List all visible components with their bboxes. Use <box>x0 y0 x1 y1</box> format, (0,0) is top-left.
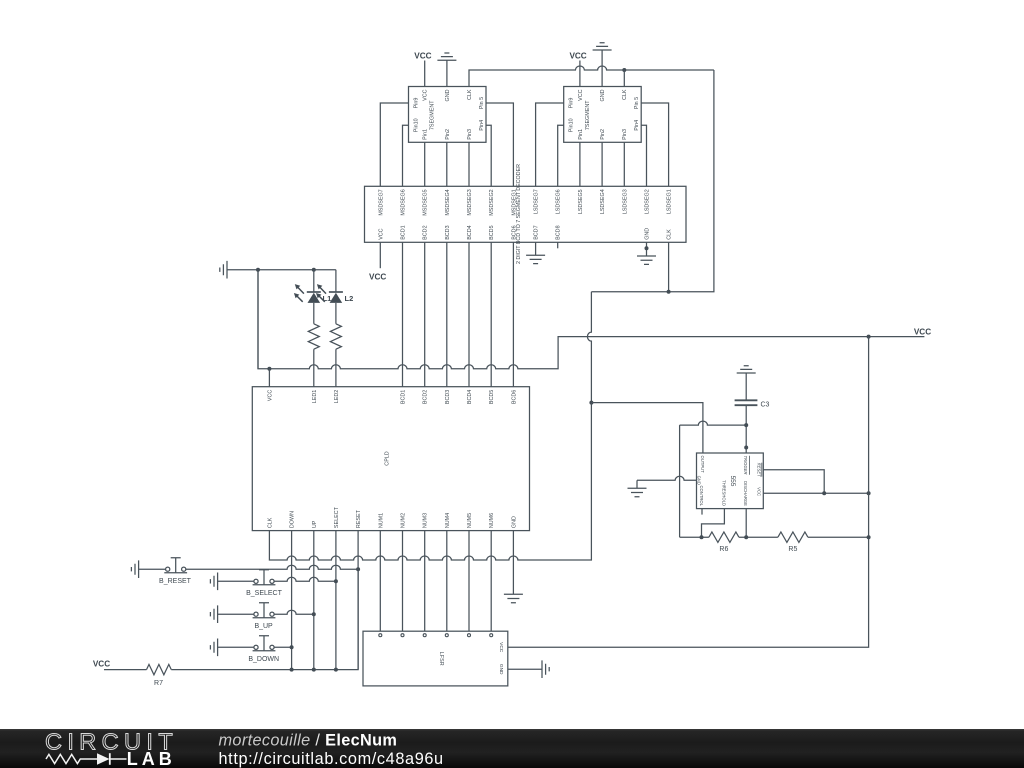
CPLD U4 <box>252 387 529 531</box>
junction dot C3 <box>744 423 748 427</box>
svg-text:B_DOWN: B_DOWN <box>248 656 279 663</box>
svg-text:BCD5: BCD5 <box>489 390 495 404</box>
wire U2 Pin3 to MSDSEG3 <box>468 142 470 186</box>
svg-text:GND: GND <box>445 89 451 101</box>
wire U3 Pin5 to LSDSEG1 <box>641 103 668 186</box>
wire R7 rail to RESET vertical <box>171 569 358 669</box>
svg-text:Pin3: Pin3 <box>467 129 473 140</box>
junction dot decoder GND <box>645 246 649 250</box>
svg-text:MSDSEG6: MSDSEG6 <box>401 189 407 215</box>
wire CPLD NUM2 to LFSR <box>402 531 404 632</box>
wire U3 Pin3 to LSDSEG3 <box>623 142 625 186</box>
wire U3 Pin2 to LSDSEG4 <box>601 142 603 186</box>
svg-text:Pin10: Pin10 <box>569 118 575 132</box>
VCC flag (decoder) <box>369 242 386 281</box>
wire rail down to VCC line <box>257 270 259 369</box>
junction dot B_UP <box>312 612 316 616</box>
svg-text:DISCHARGE: DISCHARGE <box>743 481 748 506</box>
svg-text:VCC: VCC <box>267 390 273 401</box>
svg-text:CLK: CLK <box>622 89 628 100</box>
svg-text:CLK: CLK <box>667 229 673 240</box>
svg-text:VCC: VCC <box>569 52 586 61</box>
wire CPLD DOWN vertical <box>291 531 293 670</box>
7-segment display U2 <box>409 87 487 143</box>
wire 555 DISCHARGE <box>745 509 747 538</box>
svg-text:Pin 5: Pin 5 <box>634 97 640 109</box>
wire CPLD NUM4 to LFSR <box>446 531 448 632</box>
svg-text:MSDSEG2: MSDSEG2 <box>489 189 495 215</box>
svg-text:LSDSEG2: LSDSEG2 <box>645 189 651 214</box>
svg-text:Pin2: Pin2 <box>445 129 451 140</box>
svg-text:BCD8: BCD8 <box>556 225 562 239</box>
resistor R1 (LED L1) <box>308 324 319 387</box>
svg-text:RESET: RESET <box>756 463 761 477</box>
wire U3 Pin9 to LSDSEG7 <box>536 103 564 186</box>
junction dot B_RESET/RESET <box>356 567 360 571</box>
wire 555 GND with hop <box>637 476 697 480</box>
ground (CPLD GND) <box>504 531 523 603</box>
wire U3 Pin4 to LSDSEG2 <box>641 125 646 186</box>
svg-text:NUM4: NUM4 <box>445 513 451 528</box>
svg-text:OUTPUT: OUTPUT <box>700 456 705 474</box>
wire U3 CLK stub <box>623 70 625 87</box>
wire CPLD NUM5 to LFSR <box>468 531 470 632</box>
junction dot rail/UP <box>312 668 316 672</box>
svg-text:VCC: VCC <box>756 487 761 496</box>
svg-text:VCC: VCC <box>93 660 110 669</box>
wire BCD1 decoder to CPLD <box>402 242 404 386</box>
svg-text:VCC: VCC <box>914 327 931 336</box>
svg-text:Pin 5: Pin 5 <box>479 97 485 109</box>
svg-text:Pin4: Pin4 <box>634 120 640 131</box>
junction dot THRESHOLD/R6 <box>700 535 704 539</box>
wire LED rail <box>258 269 336 271</box>
svg-text:C3: C3 <box>761 402 770 409</box>
pushbutton B_SELECT <box>210 573 254 591</box>
ground (decoder GND) <box>637 242 656 264</box>
pushbutton B_DOWN <box>210 639 254 657</box>
svg-text:LSDSEG6: LSDSEG6 <box>556 189 562 214</box>
svg-text:BCD2: BCD2 <box>423 390 429 404</box>
wire CPLD NUM6 to LFSR <box>490 531 492 632</box>
wire BCD5 decoder to CPLD <box>490 242 492 386</box>
svg-text:NUM3: NUM3 <box>423 513 429 528</box>
555 timer U5 <box>697 453 764 509</box>
wire U3 Pin1 to LSDSEG5 <box>579 142 581 186</box>
svg-text:GND: GND <box>511 516 517 528</box>
wire VCC right rail down to LFSR <box>508 337 869 648</box>
svg-text:LSDSEG4: LSDSEG4 <box>600 189 606 214</box>
svg-text:Pin4: Pin4 <box>479 120 485 131</box>
svg-text:GND: GND <box>645 228 651 240</box>
svg-text:MSDSEG3: MSDSEG3 <box>467 189 473 215</box>
svg-text:LED1: LED1 <box>312 390 318 404</box>
svg-text:BCD1: BCD1 <box>401 390 407 404</box>
wire C3 to TRIGGER <box>745 405 747 453</box>
svg-text:LFSR: LFSR <box>438 652 444 666</box>
svg-text:L2: L2 <box>345 294 354 303</box>
svg-text:R6: R6 <box>719 546 728 553</box>
wire CPLD SELECT vertical <box>335 531 337 670</box>
svg-text:GND: GND <box>600 89 606 101</box>
2-digit BCD to 7-segment decoder U1 <box>365 164 687 264</box>
svg-text:BCD4: BCD4 <box>467 390 473 404</box>
wire R6/R5 rail <box>680 536 869 538</box>
svg-text:Pin1: Pin1 <box>578 129 584 140</box>
svg-text:7SEGMENT: 7SEGMENT <box>585 100 591 130</box>
VCC flag (display U3) <box>569 52 586 87</box>
svg-text:VCC: VCC <box>578 89 584 100</box>
svg-text:LSDSEG3: LSDSEG3 <box>622 189 628 214</box>
ground (C3 top) <box>737 366 756 401</box>
junction dot rail/SELECT <box>334 668 338 672</box>
junction dot rail/DOWN <box>290 668 294 672</box>
svg-text:GND: GND <box>498 664 504 675</box>
wire U2 Pin10 to MSDSEG6 <box>403 125 409 186</box>
svg-text:Pin9: Pin9 <box>569 98 575 109</box>
svg-text:VCC: VCC <box>378 228 384 239</box>
junction dot LED1 top <box>312 268 316 272</box>
LFSR U6 <box>363 631 508 686</box>
wire 555 RESET to VCC rail <box>763 470 824 494</box>
wire CLK net (displays to 555 output / decoder) <box>469 66 714 87</box>
wire CLK down to CPLD CLK <box>269 403 591 560</box>
svg-text:BCD3: BCD3 <box>445 390 451 404</box>
svg-text:BCD2: BCD2 <box>423 225 429 239</box>
svg-text:VCC: VCC <box>369 272 386 281</box>
svg-text:LSDSEG1: LSDSEG1 <box>667 189 673 214</box>
junction dot TRIGGER <box>744 446 748 450</box>
wire U2 Pin9 to MSDSEG7 <box>380 103 408 186</box>
svg-text:THRESHOLD: THRESHOLD <box>721 480 726 506</box>
junction dot B_SELECT <box>334 579 338 583</box>
wire BCD4 decoder to CPLD <box>468 242 470 386</box>
junction dot R5/VCC rail <box>867 535 871 539</box>
svg-text:LED2: LED2 <box>334 390 340 404</box>
wire BCD2 decoder to CPLD <box>424 242 426 386</box>
svg-text:SELECT: SELECT <box>334 506 340 528</box>
svg-text:Pin3: Pin3 <box>622 129 628 140</box>
wire BCD3 decoder to CPLD <box>446 242 448 386</box>
svg-text:CONTROL: CONTROL <box>699 486 704 507</box>
junction dot VCC rail <box>867 491 871 495</box>
wire BCD6 decoder to CPLD <box>512 242 514 386</box>
svg-text:NUM5: NUM5 <box>467 513 473 528</box>
svg-text:BCD3: BCD3 <box>445 225 451 239</box>
wire CPLD NUM1 to LFSR <box>379 531 381 632</box>
svg-text:B_SELECT: B_SELECT <box>246 590 283 597</box>
svg-text:Pin9: Pin9 <box>413 98 419 109</box>
ground (decoder BCD7) <box>526 242 545 263</box>
svg-text:RESET: RESET <box>356 509 362 528</box>
junction dot RESET/VCC <box>822 491 826 495</box>
wire 555 THRESHOLD <box>702 509 725 538</box>
ground (555 GND) <box>628 480 647 496</box>
junction dot decoder CLK <box>667 290 671 294</box>
wire BCD8 stub <box>557 242 559 248</box>
svg-text:BCD7: BCD7 <box>534 225 540 239</box>
svg-text:NUM2: NUM2 <box>401 513 407 528</box>
junction dot rail left <box>256 268 260 272</box>
junction dot U3 CLK <box>622 68 626 72</box>
svg-text:VCC: VCC <box>498 642 504 653</box>
svg-text:CLK: CLK <box>467 89 473 100</box>
svg-text:LSDSEG5: LSDSEG5 <box>578 189 584 214</box>
wire C3 branch down to R6 <box>679 425 681 537</box>
svg-text:BCD4: BCD4 <box>467 225 473 239</box>
wire U2 Pin1 to MSDSEG5 <box>424 142 426 186</box>
svg-text:TRIGGER: TRIGGER <box>743 456 748 475</box>
resistor R6 <box>709 532 739 553</box>
7-segment display U3 <box>564 87 642 143</box>
svg-text:CPLD: CPLD <box>385 451 391 465</box>
svg-text:CLK: CLK <box>267 517 273 528</box>
svg-text:Pin1: Pin1 <box>423 129 429 140</box>
LED L2 <box>316 270 353 324</box>
wire 555 CONTROL stub <box>701 509 703 515</box>
svg-text:VCC: VCC <box>423 89 429 100</box>
wire LFSR GND <box>508 668 542 670</box>
wire VCC main line <box>258 270 924 369</box>
svg-text:VCC: VCC <box>414 52 431 61</box>
svg-text:Pin10: Pin10 <box>413 118 419 132</box>
wire CPLD NUM3 to LFSR <box>424 531 426 632</box>
wire 555 OUTPUT to CLK node <box>591 403 703 453</box>
CircuitLab logo doodle (resistor + diode) <box>46 753 127 765</box>
ground (display U3 GND) <box>593 43 612 87</box>
wire C3 horizontal with hop <box>680 421 747 425</box>
VCC flag (display U2) <box>414 52 431 87</box>
svg-text:MSDSEG7: MSDSEG7 <box>378 189 384 215</box>
svg-text:2 DIGIT BCD TO 7 SEGMENT DECOD: 2 DIGIT BCD TO 7 SEGMENT DECODER <box>516 164 522 264</box>
svg-text:GND: GND <box>697 476 702 485</box>
pushbutton B_RESET <box>131 560 166 578</box>
wire CPLD UP vertical <box>313 531 315 670</box>
ground (LFSR GND) <box>542 660 549 678</box>
LED L1 <box>294 270 331 324</box>
svg-text:MSDSEG5: MSDSEG5 <box>423 189 429 215</box>
svg-text:DOWN: DOWN <box>290 511 296 528</box>
svg-text:UP: UP <box>312 520 318 528</box>
capacitor C3 <box>735 400 770 408</box>
wire U3 Pin10 to LSDSEG6 <box>558 125 564 186</box>
wire CLK vertical with hop over VCC line <box>587 292 591 403</box>
svg-text:MSDSEG4: MSDSEG4 <box>445 189 451 215</box>
svg-text:R5: R5 <box>788 546 797 553</box>
wire decoder CLK down <box>668 242 670 291</box>
svg-text:LSDSEG7: LSDSEG7 <box>534 189 540 214</box>
svg-text:BCD1: BCD1 <box>401 225 407 239</box>
ground (LED rail) <box>220 261 258 279</box>
wire CPLD RESET vertical <box>357 531 359 670</box>
wire U2 Pin5 to MSDSEG1 <box>486 103 513 186</box>
footer bar <box>0 729 1024 768</box>
wire VCC to R7 <box>104 669 147 671</box>
resistor R2 (LED L2) <box>330 324 341 387</box>
svg-text:NUM1: NUM1 <box>378 513 384 528</box>
svg-text:R7: R7 <box>154 680 163 687</box>
svg-text:http://circuitlab.com/c48a96u: http://circuitlab.com/c48a96u <box>219 750 444 768</box>
svg-text:LAB: LAB <box>127 749 176 768</box>
junction dot DISCHARGE/R6/R5 <box>744 535 748 539</box>
svg-text:NUM6: NUM6 <box>489 513 495 528</box>
svg-text:B_RESET: B_RESET <box>159 578 192 585</box>
wire 555 VCC to rail <box>763 492 868 494</box>
svg-text:mortecouille / ElecNum: mortecouille / ElecNum <box>219 732 398 750</box>
svg-text:BCD6: BCD6 <box>511 390 517 404</box>
junction dot B_DOWN <box>290 645 294 649</box>
svg-text:Pin2: Pin2 <box>600 129 606 140</box>
wire U2 Pin2 to MSDSEG4 <box>446 142 448 186</box>
ground (display U2 GND) <box>437 53 456 87</box>
resistor R7 <box>147 664 172 687</box>
pushbutton B_UP <box>210 605 254 623</box>
svg-text:7SEGMENT: 7SEGMENT <box>430 100 436 130</box>
wire CPLD VCC stub <box>268 369 270 387</box>
junction dot CPLD VCC <box>267 367 271 371</box>
svg-text:BCD5: BCD5 <box>489 225 495 239</box>
junction dot CLK/555 output <box>589 401 593 405</box>
wire U2 Pin4 to MSDSEG2 <box>486 125 491 186</box>
svg-text:555: 555 <box>729 476 736 487</box>
resistor R5 <box>778 532 808 553</box>
svg-text:B_UP: B_UP <box>254 623 273 630</box>
junction dot VCC right rail <box>867 335 871 339</box>
